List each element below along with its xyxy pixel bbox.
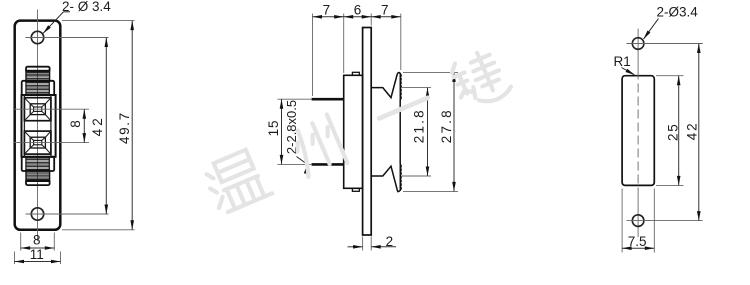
svg-text:2: 2 [386, 234, 394, 249]
side view top dimension line 7-6-7 [313, 16, 401, 18]
svg-text:R1: R1 [614, 54, 631, 69]
front view plate top extension line [62, 20, 135, 22]
side view latch tip extension lines [403, 71, 458, 73]
svg-text:21.8: 21.8 [412, 108, 427, 143]
svg-text:7.5: 7.5 [628, 234, 647, 249]
front view bottom dimension 11 extension lines [14, 252, 16, 265]
front view bottom mounting hole [31, 208, 43, 220]
cutout view dimension 25 line and arrows [678, 76, 680, 186]
cutout view width extension lines [621, 189, 623, 253]
cutout view dimension 42 line and arrows [698, 44, 700, 221]
cutout view slot height extension lines [656, 75, 684, 77]
front view upper port horizontal centerline / 8 extension line [13, 108, 89, 110]
cutout view vertical centerline [637, 29, 639, 71]
side view lower contact pin [312, 163, 344, 166]
front view upper SC port opening [24, 98, 51, 121]
side view front body with serrated latch fingers [371, 73, 400, 192]
front view lower wide ribbed section with side tabs [22, 157, 55, 171]
watermark character zhou [289, 114, 348, 179]
front view upper wide ribbed section with side tabs [22, 81, 55, 95]
cutout view top hole horizontal centerline [627, 43, 651, 45]
side view lower latch serrated edge [399, 164, 402, 190]
watermark character jian [447, 46, 513, 112]
side view pin size leader [297, 157, 307, 165]
svg-text:42: 42 [90, 115, 105, 136]
cutout view corner radius leader R1 [622, 68, 635, 75]
front view adapter body rectangle [22, 95, 56, 157]
svg-text:27.8: 27.8 [439, 108, 454, 143]
cutout view hole pitch extension lines [645, 43, 703, 45]
front view bottom latch ribbed section [26, 170, 50, 181]
watermark character yi [379, 98, 428, 119]
front view bottom latch cap [26, 180, 50, 185]
front view bottom dimension 8 extension lines [20, 233, 22, 251]
side view upper contact pin [312, 98, 344, 101]
side view dimension 15 line and arrows [281, 99, 283, 164]
svg-text:2-Ø3.4: 2-Ø3.4 [657, 5, 699, 20]
side view body height extension lines [402, 87, 431, 89]
svg-text:15: 15 [266, 120, 281, 137]
side view rear body bottom tab [352, 188, 359, 191]
front view bottom hole horizontal centerline / 42 extension line [26, 213, 109, 215]
cutout view hole callout leader 2-O3.4 [644, 19, 659, 39]
front view top latch ribbed section [26, 71, 50, 82]
cutout view dimension 7.5 line and arrows [622, 247, 654, 249]
front view plate bottom extension line [62, 229, 135, 231]
side view dimension 27.8 line and arrows [453, 72, 455, 191]
svg-text:11: 11 [30, 247, 44, 262]
front view hole callout leader 2-O3.4 [43, 12, 63, 33]
svg-text:25: 25 [665, 122, 680, 141]
side view upper latch serrated edge [399, 74, 402, 100]
svg-text:42: 42 [684, 122, 699, 141]
front view mounting plate outline [15, 21, 61, 230]
side view plate thickness extension lines [362, 237, 364, 251]
side view dimension 21.8 line and arrows [427, 88, 429, 176]
front view top hole horizontal centerline / 42 extension line [26, 37, 109, 39]
svg-text:6: 6 [354, 2, 362, 17]
cutout view bottom hole [632, 215, 644, 227]
cutout view bottom hole horizontal centerline [627, 220, 651, 222]
side view rear body block [344, 75, 363, 188]
svg-text:2- Ø 3.4: 2- Ø 3.4 [62, 0, 111, 14]
front view lower port horizontal centerline / 8 extension line [13, 142, 89, 144]
svg-text:8: 8 [68, 120, 83, 128]
front view dimension 42 line and arrows [105, 38, 107, 215]
watermark character wen [202, 147, 273, 215]
svg-text:7: 7 [323, 2, 331, 17]
svg-text:7: 7 [381, 2, 389, 17]
front view top latch cap [26, 67, 50, 72]
front view bottom dimension 8 line and arrows [21, 247, 55, 249]
side view top dimension extension lines [312, 14, 314, 97]
cutout view top hole [632, 38, 644, 50]
side view flange plate [363, 28, 372, 236]
front view top mounting hole [31, 31, 43, 43]
front view vertical centerline [37, 10, 39, 242]
front view body inner walls [23, 95, 25, 157]
front view dimension 8 (port pitch) line and arrows [83, 109, 85, 142]
side view pin extension lines [278, 98, 312, 100]
side view dimension 2 lines and arrows [348, 246, 363, 248]
side view rear body top tab [352, 72, 359, 75]
svg-text:49.7: 49.7 [117, 111, 132, 144]
svg-text:8: 8 [33, 233, 41, 248]
cutout view rectangle [622, 76, 654, 186]
front view bottom dimension 11 line and arrows [15, 261, 61, 263]
front view lower SC port opening [24, 131, 51, 154]
front view dimension 49.7 line and arrows [131, 21, 133, 230]
